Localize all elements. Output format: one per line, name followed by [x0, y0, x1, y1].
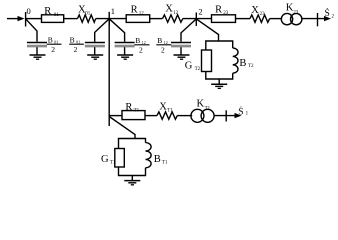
svg-text:R: R	[125, 102, 132, 113]
node T1 branch top rail	[119, 139, 146, 149]
wire X12 to node2	[183, 18, 212, 20]
wire output arrow	[324, 16, 331, 21]
svg-text:2: 2	[161, 45, 165, 54]
svg-text:G: G	[185, 61, 193, 72]
ground under cap4	[174, 54, 190, 56]
capacitor B12/2 second	[171, 42, 191, 44]
svg-text:T1: T1	[167, 108, 173, 113]
wire node2 to cap B4 (down-left)	[181, 19, 196, 42]
svg-text:01: 01	[54, 13, 60, 18]
wire node1 to cap B3 (down-right)	[109, 19, 124, 42]
svg-text:23: 23	[293, 10, 299, 15]
node T2 branch top rail	[206, 41, 233, 50]
transformer KT1	[191, 109, 204, 122]
wire X01 to node1	[96, 18, 127, 20]
inductor X12	[163, 15, 183, 22]
wire input feeder with arrow	[7, 18, 19, 20]
ground under cap2	[87, 54, 103, 56]
ground under cap1	[30, 54, 46, 56]
svg-text:X: X	[251, 5, 259, 16]
svg-text:B: B	[70, 36, 75, 45]
wire node1 to cap B2 (down-left)	[95, 19, 110, 42]
node T1 branch bottom rail	[119, 167, 146, 176]
svg-text:K: K	[197, 99, 205, 110]
svg-text:B: B	[239, 58, 246, 69]
output terminal tick	[317, 13, 319, 26]
ground T1	[124, 180, 140, 182]
wire RT1 to XT1	[145, 115, 157, 117]
svg-text:2: 2	[198, 6, 202, 16]
node 2 tick	[195, 13, 197, 27]
resistor RT1	[122, 111, 145, 120]
svg-text:T1: T1	[134, 108, 140, 113]
susceptance B_T2 coil	[233, 48, 238, 73]
ground T2	[211, 83, 227, 85]
inductor XT1	[157, 112, 177, 119]
resistor R01	[42, 15, 64, 23]
wire node0 to cap B1	[26, 19, 37, 42]
capacitor B01/2 second	[85, 42, 105, 44]
wire junction diagonal to T1 branch	[109, 117, 135, 139]
svg-text:X: X	[165, 4, 173, 15]
svg-text:0: 0	[27, 6, 31, 16]
wire R23 to X23	[236, 18, 251, 20]
resistor R12	[126, 15, 150, 23]
svg-text:T2: T2	[248, 64, 254, 69]
ground under cap3	[117, 54, 133, 56]
resistor R23	[212, 15, 236, 23]
svg-text:1: 1	[111, 6, 115, 16]
wire node2 to shunt branch (down-right)	[196, 19, 218, 41]
svg-text:B: B	[135, 36, 140, 45]
susceptance B_T1 coil	[146, 143, 152, 168]
svg-text:12: 12	[173, 11, 179, 16]
svg-text:2: 2	[139, 45, 143, 54]
inductor X01	[78, 15, 96, 22]
svg-text:R: R	[215, 4, 222, 15]
svg-text:2: 2	[51, 45, 55, 54]
wire K23 to output	[302, 18, 326, 20]
node 0 terminal tick	[25, 12, 27, 27]
wire output arrow T1	[235, 113, 242, 118]
wire R12 to X12	[150, 18, 163, 20]
node 1 tick	[108, 12, 110, 26]
svg-text:T1: T1	[110, 160, 116, 165]
svg-text:2: 2	[74, 45, 78, 54]
wire R01 to X01	[64, 18, 78, 20]
wire node1 long vertical	[108, 19, 110, 126]
inductor X23	[250, 15, 270, 22]
svg-text:1: 1	[246, 112, 249, 117]
svg-text:B: B	[157, 36, 162, 45]
svg-text:X: X	[159, 101, 167, 112]
wire node0 to R01	[26, 18, 42, 20]
svg-text:2: 2	[332, 15, 335, 20]
wire junction to RT1	[109, 115, 122, 117]
capacitor B12/2 first	[115, 42, 135, 44]
svg-text:23: 23	[223, 11, 229, 16]
conductance G_T2 box	[202, 50, 212, 72]
svg-text:R: R	[131, 5, 138, 16]
wire to ground T1	[131, 176, 133, 181]
svg-text:T1: T1	[205, 107, 211, 112]
wire X23 to K23	[270, 18, 282, 20]
capacitor B01/2 first	[27, 42, 47, 44]
output terminal tick T1	[225, 110, 227, 121]
svg-text:B: B	[154, 154, 161, 165]
wire XT1 to KT1	[177, 115, 192, 117]
svg-text:Ṡ: Ṡ	[238, 105, 243, 117]
svg-text:23: 23	[260, 12, 266, 17]
svg-text:R: R	[44, 6, 51, 17]
wire to ground T2	[218, 79, 220, 84]
wire KT1 to output	[214, 115, 236, 117]
svg-text:B: B	[48, 36, 53, 45]
transformer K23	[281, 13, 292, 24]
node T2 branch bottom rail	[206, 72, 233, 80]
svg-text:T1: T1	[162, 160, 168, 165]
svg-text:Ṡ: Ṡ	[325, 7, 330, 19]
conductance G_T1 box	[115, 149, 125, 168]
svg-text:01: 01	[85, 11, 91, 16]
svg-text:12: 12	[139, 11, 145, 16]
svg-text:T2: T2	[195, 67, 201, 72]
svg-text:G: G	[101, 154, 109, 165]
